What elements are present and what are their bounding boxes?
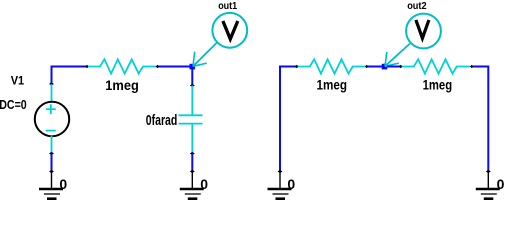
wire: V1 top corner to R1 left pin [52,67,88,85]
wire: node out1 down to capacitor [191,67,193,86]
wire: R1 to node out1 [159,66,191,68]
wire: V1 bottom to ground 1 [51,154,53,172]
svg-text:1meg: 1meg [317,77,348,93]
ground 1 (0) [39,170,67,199]
wire: node out2 to R3 [387,66,402,68]
capacitor C1 pin top [190,84,195,87]
svg-text:DC=0: DC=0 [0,98,27,112]
resistor R2 pin right [365,65,369,69]
resistor R3 [402,59,470,73]
svg-text:0: 0 [59,176,67,192]
svg-text:0: 0 [497,176,505,192]
svg-text:0: 0 [287,176,295,192]
svg-text:out2: out2 [407,1,427,12]
svg-text:out1: out1 [218,1,237,12]
wire: R3 to right branch and down to ground 4 [473,67,488,172]
pin marker V1 top [49,82,54,85]
voltage source V1 [35,84,69,154]
voltage probe V (out1) [212,13,247,48]
wire: right circuit left branch [280,67,297,172]
capacitor C1 [179,86,203,154]
resistor R2 pin left [295,65,299,69]
resistor R2 [298,59,366,73]
pin marker V1 bottom [49,152,54,155]
svg-text:1meg: 1meg [105,77,139,93]
voltage marker arrow out2 [385,44,410,67]
ground 2 (0) [180,170,208,199]
svg-text:0farad: 0farad [146,113,178,129]
resistor R1 pin left [85,65,89,69]
svg-text:1meg: 1meg [423,77,453,93]
junction node out1 [190,64,196,70]
svg-text:V1: V1 [11,74,25,88]
resistor R1 pin right [156,65,160,69]
resistor R3 pin left [399,65,403,69]
resistor R3 pin right [470,65,474,69]
ground 3 (0) [268,170,296,199]
junction node out2 [382,64,388,70]
capacitor C1 pin bottom [190,152,195,155]
wire: R2 to node out2 [368,66,382,68]
resistor R1 [88,59,156,73]
wire: capacitor to ground 2 [191,154,193,172]
voltage marker arrow out1 [193,43,217,67]
voltage probe V (out2) [406,14,441,49]
ground 4 (0) [476,170,505,199]
svg-text:0: 0 [200,176,208,192]
